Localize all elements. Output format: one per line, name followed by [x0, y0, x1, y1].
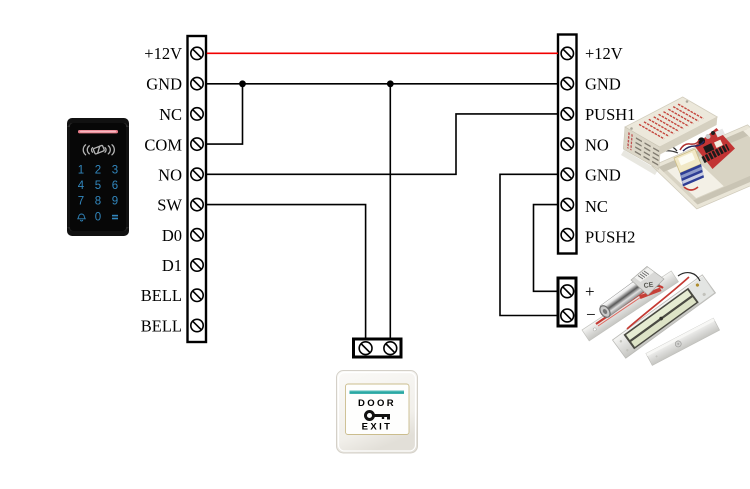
keypad U1 [67, 118, 129, 236]
lid box with red printing [623, 97, 717, 169]
svg-text:EXIT: EXIT [362, 422, 393, 433]
red wrap under CE box [639, 288, 662, 300]
svg-text:+12V: +12V [144, 44, 182, 63]
terminal TB4 GND [384, 342, 397, 355]
svg-text:NC: NC [159, 105, 182, 124]
chassis open box [652, 125, 750, 209]
wire SW to exit button [207, 205, 366, 339]
terminal TB2 PUSH1 [561, 108, 573, 120]
key icon [366, 412, 389, 420]
svg-text:PUSH2: PUSH2 [585, 228, 635, 247]
svg-text:GND: GND [585, 75, 621, 94]
terminal TB3 plus [561, 285, 574, 298]
svg-text:BELL: BELL [141, 286, 182, 305]
wire GND bus [207, 83, 558, 85]
maglock body [613, 275, 716, 358]
svg-text:D0: D0 [162, 226, 182, 245]
svg-text:BELL: BELL [141, 317, 182, 336]
terminal TB4 SW [359, 342, 372, 355]
magnetic lock ML1 (photo approximation) [582, 267, 720, 366]
svg-text:D1: D1 [162, 256, 182, 275]
screws exit block TB4 [359, 342, 396, 355]
transformer T1 [664, 140, 704, 190]
bell key [78, 214, 85, 221]
terminal TB3 minus [561, 309, 574, 322]
terminal TB2 +12V [561, 47, 573, 59]
svg-text:NO: NO [585, 136, 609, 155]
lock terminal block TB3 [558, 278, 576, 326]
terminal TB1 D0 [191, 229, 203, 241]
junction dot B [387, 80, 394, 87]
lock block polarity labels [585, 282, 596, 324]
terminal TB1 NO [191, 168, 203, 180]
svg-text:7: 7 [78, 196, 84, 208]
terminal TB1 NC [191, 108, 203, 120]
svg-text:+: + [585, 282, 595, 301]
svg-text:1: 1 [78, 164, 84, 176]
LED bar [78, 130, 118, 133]
svg-text:6: 6 [112, 180, 118, 192]
bolt cylinder [600, 277, 648, 317]
screws left strip TB1 [191, 47, 203, 331]
svg-text:4: 4 [78, 180, 85, 192]
wire right NC to lock plus [534, 205, 559, 292]
CE box [631, 267, 664, 296]
right terminal strip [558, 35, 577, 254]
lid lower-right sliver [659, 117, 717, 155]
lid left end face with vents [623, 127, 660, 169]
RFID symbol [83, 145, 114, 155]
left strip pin labels [141, 44, 183, 336]
terminal TB1 COM [191, 138, 203, 150]
dark bracket [636, 274, 660, 294]
shadow under lid [621, 150, 658, 175]
digits [78, 164, 118, 223]
junction dot A [239, 80, 246, 87]
terminal TB2 PUSH2 [561, 229, 573, 241]
svg-text:8: 8 [95, 196, 101, 208]
svg-text:GND: GND [585, 166, 621, 185]
red wire over maglock [627, 277, 689, 329]
wire NO to PUSH1 [207, 114, 558, 174]
exit button S1 [337, 371, 418, 454]
armature plate [646, 318, 720, 365]
right strip pin labels [585, 44, 635, 247]
wire +12V red [207, 52, 558, 54]
terminal TB2 GND [561, 77, 573, 89]
terminal TB2 GND2 [561, 168, 573, 180]
terminal TB1 D1 [191, 259, 203, 271]
red PCB [695, 128, 736, 169]
svg-text:CE: CE [643, 282, 654, 290]
svg-text:PUSH1: PUSH1 [585, 105, 635, 124]
svg-text:NC: NC [585, 197, 608, 216]
screws lock block TB3 [561, 285, 574, 322]
terminal TB1 BELL1 [191, 289, 203, 301]
terminal TB1 GND [191, 77, 203, 89]
terminal TB1 SW [191, 198, 203, 210]
red wire along plate [596, 286, 663, 324]
svg-text:3: 3 [112, 164, 118, 176]
left terminal strip [188, 36, 207, 342]
svg-text:NO: NO [158, 166, 182, 185]
svg-text:GND: GND [146, 75, 182, 94]
terminal TB2 NC [561, 198, 573, 210]
bolt lock mounting plate [582, 271, 678, 341]
svg-text:+12V: +12V [585, 44, 623, 63]
svg-text:5: 5 [95, 180, 101, 192]
svg-text:SW: SW [157, 196, 182, 215]
svg-text:DOOR: DOOR [358, 398, 396, 409]
svg-text:9: 9 [112, 196, 118, 208]
wire right GND to lock minus [500, 174, 558, 315]
wire COM branch [207, 84, 243, 144]
screws right strip TB2 [561, 47, 573, 241]
svg-text:0: 0 [95, 211, 101, 223]
terminal TB1 +12V [191, 47, 203, 59]
wire exit button to GND [389, 84, 391, 339]
terminal TB1 BELL2 [191, 319, 203, 331]
power supply PS1 (photo approximation) [621, 97, 750, 209]
svg-text:2: 2 [95, 164, 101, 176]
svg-text:COM: COM [144, 136, 182, 155]
exit button terminal block TB4 [354, 339, 402, 357]
svg-text:−: − [586, 305, 596, 324]
terminal TB2 NO [561, 138, 573, 150]
